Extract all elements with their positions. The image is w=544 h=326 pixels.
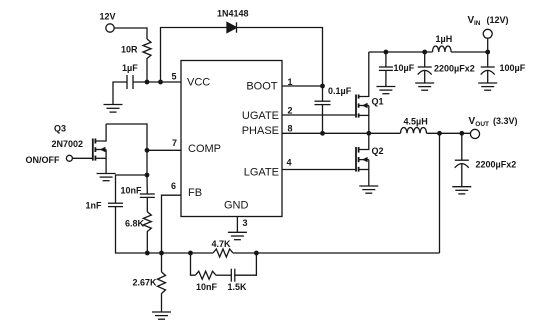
node 10uF tap xyxy=(384,50,389,55)
svg-text:2N7002: 2N7002 xyxy=(52,139,84,149)
svg-text:1µH: 1µH xyxy=(436,34,453,44)
wire inductor to VOUT terminal xyxy=(427,132,471,134)
svg-text:PHASE: PHASE xyxy=(242,125,279,137)
svg-text:OUT: OUT xyxy=(475,121,489,128)
wire 12V to resistor top xyxy=(114,28,147,39)
svg-text:7: 7 xyxy=(172,138,177,148)
svg-text:8: 8 xyxy=(288,124,293,134)
wire FB pin 6 xyxy=(162,195,182,253)
svg-text:6.8K: 6.8K xyxy=(125,219,145,229)
svg-text:6: 6 xyxy=(171,181,176,191)
node BOOT junction xyxy=(320,84,325,89)
ground (IC GND) xyxy=(228,232,247,239)
svg-text:1.5K: 1.5K xyxy=(228,282,248,292)
diode D1 1N4148 xyxy=(217,9,249,33)
wire feedback rail xyxy=(147,252,213,254)
wire UGATE pin 2 xyxy=(282,114,356,116)
ground (100uF) xyxy=(478,83,497,90)
capacitor 2200uFx2 output xyxy=(455,133,516,186)
svg-text:10nF: 10nF xyxy=(196,282,218,292)
node 6.8K rail junction xyxy=(145,251,150,256)
svg-text:Q2: Q2 xyxy=(372,146,384,156)
svg-text:12V: 12V xyxy=(100,12,116,22)
svg-text:UGATE: UGATE xyxy=(242,110,279,122)
svg-text:10µF: 10µF xyxy=(394,63,415,73)
node FB rail junction xyxy=(159,251,164,256)
terminal VIN xyxy=(468,15,509,52)
node VCC junction 2 xyxy=(158,80,163,85)
capacitor 10nF (comp) xyxy=(121,175,155,197)
terminal 12V xyxy=(100,12,116,33)
svg-text:COMP: COMP xyxy=(188,143,221,155)
svg-text:2.67K: 2.67K xyxy=(133,278,158,288)
transistor Q2 xyxy=(356,133,384,186)
node PHASE junctions xyxy=(320,131,325,136)
wire cap to ground xyxy=(113,82,127,104)
wire resistor to VCC node xyxy=(146,59,148,82)
wire 6.8K to rail xyxy=(146,232,148,253)
wire 1nF to rail corner xyxy=(116,207,148,253)
svg-text:0.1µF: 0.1µF xyxy=(328,86,352,96)
svg-text:VCC: VCC xyxy=(187,77,210,89)
wire PHASE pin 8 xyxy=(282,132,401,134)
capacitor 10uF xyxy=(379,52,415,87)
ground (2.67K) xyxy=(152,312,171,319)
wire lower branch right xyxy=(235,253,257,275)
ground (1uF) xyxy=(104,105,123,113)
svg-text:ON/OFF: ON/OFF xyxy=(26,155,60,165)
terminal ON/OFF xyxy=(26,155,93,165)
resistor 10nF-labelled (lower branch) xyxy=(195,271,217,292)
svg-text:GND: GND xyxy=(224,199,249,211)
wire Q3 drain box to COMP xyxy=(106,124,147,150)
capacitor 1nF xyxy=(86,201,124,211)
svg-text:FB: FB xyxy=(188,187,202,199)
wire VIN rail xyxy=(369,51,433,53)
wire BOOT pin 1 xyxy=(282,85,323,87)
svg-text:10R: 10R xyxy=(121,45,138,55)
wire VOUT feedback down xyxy=(439,133,441,253)
svg-text:4.5µH: 4.5µH xyxy=(404,117,428,127)
svg-text:Q1: Q1 xyxy=(372,97,384,107)
node divider tap xyxy=(188,251,193,256)
terminal VOUT xyxy=(469,116,518,139)
node feedback tap xyxy=(437,131,442,136)
wire COMP pin 7 xyxy=(147,149,181,151)
inductor 1uH xyxy=(433,34,453,52)
svg-text:(3.3V): (3.3V) xyxy=(493,116,518,126)
ground (Q3 source) xyxy=(97,174,116,181)
svg-text:3: 3 xyxy=(243,218,248,228)
wire diode to BOOT node xyxy=(237,28,323,87)
ground (output cap) xyxy=(452,187,471,194)
node compensation split xyxy=(145,173,150,178)
wire LGATE pin 4 xyxy=(282,169,356,171)
wire VCC rail xyxy=(133,81,181,83)
wire to series cap xyxy=(216,274,231,276)
svg-text:1nF: 1nF xyxy=(86,201,103,211)
svg-text:1N4148: 1N4148 xyxy=(217,9,249,19)
node VIN drop xyxy=(485,50,490,55)
svg-text:2200µFx2: 2200µFx2 xyxy=(434,64,475,74)
wire GND pin 3 xyxy=(236,217,238,233)
svg-text:1µF: 1µF xyxy=(122,63,138,73)
wire lower branch left xyxy=(191,253,196,275)
svg-text:2200µFx2: 2200µFx2 xyxy=(476,160,517,170)
wire COMP node down xyxy=(146,150,148,175)
svg-text:2: 2 xyxy=(288,106,293,116)
node 2200uF tap xyxy=(422,50,427,55)
svg-text:4.7K: 4.7K xyxy=(212,239,232,249)
node COMP junction xyxy=(145,148,150,153)
ground (2200uFx2 input) xyxy=(415,83,434,90)
svg-text:(12V): (12V) xyxy=(487,15,509,25)
wire 2.67K to ground xyxy=(161,294,163,312)
ground (10uF) xyxy=(376,87,395,94)
capacitor 1.5K-labelled (lower branch) xyxy=(228,269,248,293)
resistor 10R xyxy=(121,39,151,59)
capacitor 100uF xyxy=(481,52,526,83)
resistor 4.7K xyxy=(212,239,234,257)
ground (Q2 source) xyxy=(359,186,378,193)
svg-text:LGATE: LGATE xyxy=(244,167,279,179)
wire VCC up to diode rail xyxy=(161,28,228,83)
transistor Q1 xyxy=(356,52,384,133)
capacitor C1 1uF xyxy=(122,63,138,89)
svg-text:10nF: 10nF xyxy=(121,186,143,196)
svg-text:4: 4 xyxy=(287,158,292,168)
resistor 6.8K xyxy=(125,197,151,232)
wire to 1nF branch xyxy=(116,175,148,203)
capacitor 2200uFx2 input xyxy=(418,52,475,83)
svg-text:Q3: Q3 xyxy=(54,124,66,134)
svg-text:BOOT: BOOT xyxy=(246,81,277,93)
node 4.7K right junction xyxy=(254,251,259,256)
op-amp U1 PWM controller box xyxy=(181,61,282,217)
transistor Q3 xyxy=(52,124,107,174)
capacitor 0.1uF xyxy=(315,86,352,133)
node output cap tap xyxy=(459,131,464,136)
svg-text:100µF: 100µF xyxy=(500,63,526,73)
inductor 4.5uH xyxy=(401,117,428,134)
node VCC junction 1 xyxy=(145,80,150,85)
svg-text:IN: IN xyxy=(474,20,481,27)
wire inductor to VIN terminal xyxy=(451,51,488,53)
resistor 2.67K xyxy=(133,253,166,294)
svg-text:5: 5 xyxy=(171,72,176,82)
